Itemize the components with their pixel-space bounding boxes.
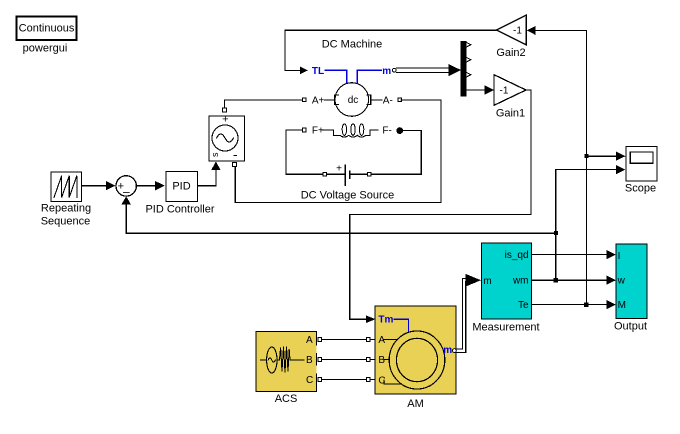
vertical net Te (x=586) <box>585 30 587 304</box>
junction wm-feedback <box>554 231 558 235</box>
arrowhead Scope input2 <box>616 165 626 174</box>
svg-text:Tm: Tm <box>378 315 393 326</box>
block ACS <box>256 332 317 392</box>
block AM <box>375 306 456 394</box>
svg-text:DC Machine: DC Machine <box>322 38 383 50</box>
svg-text:PID Controller: PID Controller <box>145 203 214 215</box>
wire Gain2 to TL <box>285 30 497 70</box>
svg-text:A: A <box>306 335 313 346</box>
port TL arrowhead <box>300 67 308 75</box>
demux Demux1 <box>461 41 471 97</box>
svg-text:F+: F+ <box>312 125 324 136</box>
svg-text:wm: wm <box>512 276 529 287</box>
port F- filled node <box>396 127 403 134</box>
junction wm wire <box>554 278 558 282</box>
wire is_qd to I <box>532 250 616 259</box>
block Controlled Voltage Source U_CVS <box>209 113 245 161</box>
wire Demux to Gain1 <box>466 85 494 94</box>
svg-text:-1: -1 <box>513 26 522 37</box>
wire PID to Controlled Voltage Source s input <box>198 162 221 186</box>
wire Te to M <box>532 300 616 309</box>
svg-text:Continuous: Continuous <box>19 23 75 35</box>
svg-text:+: + <box>222 113 228 125</box>
powergui block U_powergui <box>17 17 77 41</box>
vertical net wm (x=555.8) <box>556 170 617 281</box>
svg-text:-1: -1 <box>500 86 509 97</box>
port AM C square <box>367 378 371 382</box>
svg-text:Gain1: Gain1 <box>496 107 525 119</box>
svg-text:Te: Te <box>518 300 529 311</box>
wire m blue <box>357 70 381 83</box>
block PID Controller <box>166 172 198 202</box>
port AM m circle <box>453 349 457 353</box>
svg-text:ACS: ACS <box>275 393 298 405</box>
wire speed feedback to Sum <box>121 196 555 233</box>
port ACS B square <box>318 358 322 362</box>
svg-text:m: m <box>443 345 452 356</box>
svg-text:Repeating: Repeating <box>41 202 91 214</box>
wire ACS B to AM B <box>322 359 376 361</box>
block Output <box>616 244 647 319</box>
port AM Tm arrowhead <box>366 315 376 323</box>
port m circle <box>392 68 396 72</box>
svg-text:dc: dc <box>348 95 359 106</box>
port ACS A square <box>318 338 322 342</box>
svg-text:Gain2: Gain2 <box>496 47 525 59</box>
thick wire AM m to Measurement m <box>457 274 481 352</box>
svg-text:C: C <box>306 375 313 386</box>
port A+ square <box>303 98 306 101</box>
svg-text:A+: A+ <box>312 95 325 106</box>
sum junction Sum1 <box>116 176 136 199</box>
wire CVS+ to A+ <box>224 100 302 108</box>
svg-text:AM: AM <box>407 398 424 410</box>
brush right <box>367 95 371 105</box>
gain Gain2 <box>497 15 527 45</box>
field winding coil F <box>322 130 378 137</box>
block Measurement <box>482 243 532 319</box>
port ACS C square <box>318 378 322 382</box>
wire Gain1 to AM Tm <box>350 90 531 319</box>
wire F+ to DC Voltage Source left <box>286 130 323 174</box>
svg-text:Sequence: Sequence <box>41 215 91 227</box>
dc machine body <box>335 83 369 117</box>
port AM A square <box>367 338 371 342</box>
wire ACS C to AM C <box>322 379 376 381</box>
junction Te wire <box>584 302 588 306</box>
port A- square <box>398 98 401 101</box>
wire wm to w <box>532 276 616 285</box>
svg-text:+: + <box>336 164 342 175</box>
wire Te to Scope input1 <box>586 152 625 161</box>
coil loops <box>342 124 364 136</box>
wire Te to Gain2 input <box>527 26 587 35</box>
svg-text:F-: F- <box>382 125 391 136</box>
junction Te-Scope <box>584 154 588 158</box>
wire Repeating Sequence to Sum <box>82 181 116 190</box>
svg-text:PID: PID <box>172 180 190 192</box>
svg-text:–: – <box>123 185 130 199</box>
svg-text:Measurement: Measurement <box>472 321 539 333</box>
svg-text:powergui: powergui <box>23 43 68 55</box>
wire A- to CVS- (armature return) <box>235 100 441 203</box>
port CVS + (top) <box>223 108 227 112</box>
port F+ square <box>302 128 306 132</box>
svg-text:B: B <box>378 355 385 366</box>
wire A+ to brush <box>325 99 335 101</box>
svg-text:M: M <box>618 300 626 311</box>
wire Sum to PID <box>136 181 164 190</box>
svg-text:m: m <box>483 276 491 287</box>
wire TL blue <box>325 70 347 83</box>
svg-text:s: s <box>210 152 220 157</box>
svg-text:is_qd: is_qd <box>505 250 529 261</box>
svg-text:I: I <box>618 251 621 262</box>
brush left <box>335 95 339 105</box>
block Scope <box>626 147 657 182</box>
wire F- to DC Voltage Source right <box>372 130 421 174</box>
DC Voltage Source battery <box>323 164 371 186</box>
svg-text:DC Voltage Source: DC Voltage Source <box>301 189 395 201</box>
svg-text:A: A <box>378 335 385 346</box>
gain Gain1 <box>494 75 526 106</box>
svg-text:B: B <box>306 355 313 366</box>
svg-text:w: w <box>617 276 626 287</box>
svg-text:TL: TL <box>312 66 324 77</box>
port AM B square <box>367 358 371 362</box>
wire ACS A to AM A <box>322 339 376 341</box>
svg-text:m: m <box>382 66 391 77</box>
thick wire m to Demux <box>396 64 461 76</box>
wire brush right to A- <box>371 99 383 101</box>
block Repeating Sequence <box>51 172 82 202</box>
svg-text:A-: A- <box>383 95 393 106</box>
svg-text:Output: Output <box>614 320 647 332</box>
svg-text:Scope: Scope <box>625 182 656 194</box>
port CVS - (bottom) <box>233 163 237 167</box>
